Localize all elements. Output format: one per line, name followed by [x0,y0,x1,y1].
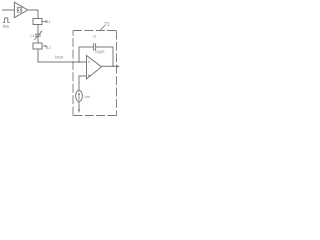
current source Iref [76,91,83,102]
node at feedback/input junction [78,61,80,63]
leader line for 21 [100,26,105,31]
wire capacitor to B2 [37,36,39,43]
plus input mark [88,75,90,77]
wire AMP lower input to current source [79,76,87,91]
wire comparator output [28,10,38,19]
capacitor C2 [93,43,95,51]
svg-text:21: 21 [104,22,110,28]
arrow from B1 [43,21,46,23]
wire AMP output with arrow [102,65,118,67]
arrow from B2 [43,45,46,47]
svg-text:Iref: Iref [85,94,92,99]
dashed box 21 [73,31,117,116]
wire feedback top left [79,47,93,62]
comparator U1 [14,2,27,17]
svg-text:B1: B1 [46,19,52,24]
wire B2 down and right to AMP input [38,49,87,62]
svg-text:Cs: Cs [30,34,35,38]
svg-text:Isen: Isen [55,55,64,60]
wire below current source with arrow [78,102,80,111]
block B2 [33,43,42,49]
arrow inside current source [78,94,80,101]
hysteresis box inside U1 [17,7,21,12]
block B1 [33,19,42,25]
svg-text:AMP: AMP [94,50,104,55]
wire feedback top right [96,47,113,66]
op-amp AMP [87,56,102,80]
wire B1 to capacitor [37,25,39,35]
svg-text:Φin: Φin [3,24,10,29]
svg-text:D: D [94,35,97,39]
wire input to comparator [2,9,15,11]
capacitor C1 (variable) [35,33,41,35]
node at feedback/output junction [112,65,114,67]
svg-text:B2: B2 [46,45,52,50]
minus input mark [88,61,90,63]
clock pulse symbol [3,18,10,22]
